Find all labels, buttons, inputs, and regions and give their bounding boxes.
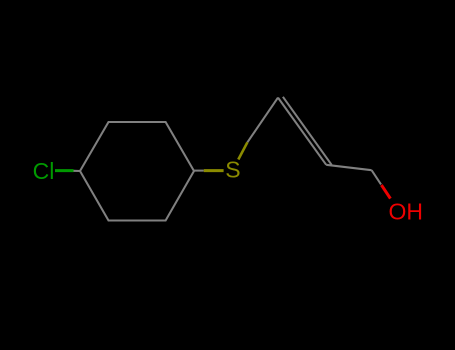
svg-text:S: S [225,156,240,182]
svg-text:Cl: Cl [33,158,55,184]
svg-text:OH: OH [389,198,424,224]
